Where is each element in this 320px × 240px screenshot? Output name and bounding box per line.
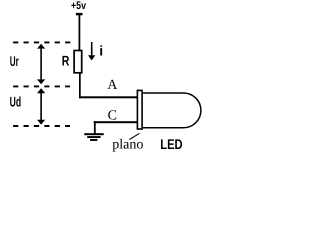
dashed reference line middle (Ur lower / Ud upper bound) (13, 85, 70, 87)
svg-text:+5v: +5v (71, 0, 87, 12)
power rail +5v (76, 13, 83, 15)
ground (84, 133, 103, 141)
wire +5v rail to resistor R top (79, 14, 81, 51)
resistor R (74, 51, 82, 73)
dashed reference line bottom (Ud lower bound) (13, 125, 70, 127)
svg-text:plano: plano (112, 138, 143, 153)
label LED (160, 136, 182, 152)
current label i (99, 42, 103, 58)
svg-text:i: i (99, 42, 103, 58)
net label +5v (71, 0, 87, 12)
leader line from plano label to flange (130, 133, 140, 139)
wire resistor R bottom to corner (79, 73, 81, 99)
resistor value label R (62, 52, 70, 68)
svg-text:Ur: Ur (10, 53, 19, 69)
wire corner down to ground (94, 121, 96, 133)
label plano (112, 138, 143, 153)
svg-text:LED: LED (160, 136, 182, 152)
node label A (107, 78, 118, 93)
svg-text:Ud: Ud (10, 94, 22, 110)
wire LED cathode to ground corner (node C) (94, 121, 137, 123)
dimension arrow Ur (double headed) (37, 44, 45, 85)
node label C (108, 108, 117, 123)
LED flange (flat side, plano) (137, 90, 142, 129)
LED body with dome (143, 93, 201, 128)
voltage label Ud (10, 94, 22, 110)
dimension arrow Ud (double headed) (37, 88, 45, 124)
dashed reference line top (Ur upper bound) (13, 41, 72, 43)
svg-text:A: A (107, 78, 118, 93)
current arrow i (88, 42, 95, 60)
wire node A to LED anode (79, 96, 137, 98)
voltage label Ur (10, 53, 19, 69)
svg-text:C: C (108, 108, 117, 123)
svg-text:R: R (62, 52, 70, 68)
